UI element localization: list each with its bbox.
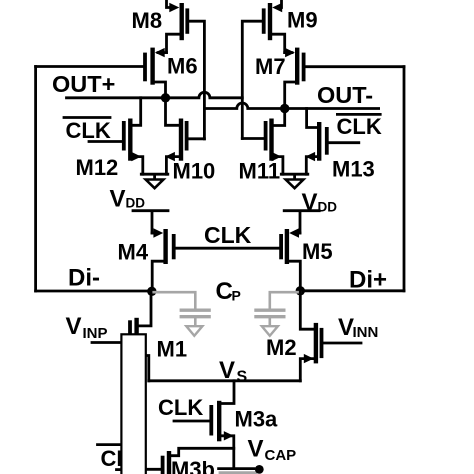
wire left rail (M6 gate to Di-) xyxy=(34,67,37,292)
wire VS xyxy=(149,379,300,382)
label CLKbar bottom (clipped by overlay) xyxy=(98,445,146,471)
svg-text:P: P xyxy=(232,288,241,304)
transistor M10 xyxy=(165,98,215,184)
transistor M3b xyxy=(146,448,234,474)
svg-text:V: V xyxy=(66,313,82,340)
svg-text:M9: M9 xyxy=(287,8,318,33)
node VCAP xyxy=(248,436,297,465)
svg-text:OUT+: OUT+ xyxy=(52,71,115,97)
power VDD left xyxy=(110,186,169,234)
wire OUT+ with hop over V1 xyxy=(67,92,243,98)
wire M7 gate to right rail xyxy=(304,65,404,68)
transistor M8 xyxy=(132,0,188,53)
svg-text:M3b: M3b xyxy=(171,457,215,474)
junction OUT+ / M6 drain xyxy=(161,93,170,102)
ground right xyxy=(281,174,308,188)
svg-text:M8: M8 xyxy=(132,8,163,33)
svg-text:CLK: CLK xyxy=(66,118,111,143)
wire OUT- with hop over V2 xyxy=(204,103,378,108)
junction Di+ xyxy=(296,286,305,295)
svg-text:M4: M4 xyxy=(118,240,149,265)
capacitor CP right (parasitic, gray) xyxy=(254,292,300,336)
node OUT- xyxy=(317,82,373,108)
label CLKbar right xyxy=(337,114,382,139)
node VINP xyxy=(66,313,130,343)
label CLK M3a xyxy=(158,395,203,420)
svg-text:CLK: CLK xyxy=(158,395,203,420)
svg-text:C: C xyxy=(216,278,233,305)
wire M6 gate to left rail xyxy=(36,65,145,68)
svg-text:M10: M10 xyxy=(173,159,216,184)
svg-text:Di-: Di- xyxy=(68,265,100,292)
overlay white box (figure crop patch) xyxy=(121,334,145,474)
wire right rail (M7 gate to Di+) xyxy=(403,67,406,291)
svg-text:S: S xyxy=(237,369,248,386)
svg-text:M7: M7 xyxy=(255,54,286,79)
wire CLK to M3a gate xyxy=(174,420,211,423)
svg-text:M3a: M3a xyxy=(235,407,279,432)
node OUT+ xyxy=(52,71,115,97)
wire CLK M4-M5 gates xyxy=(174,247,281,250)
svg-text:M1: M1 xyxy=(157,337,188,362)
svg-text:M11: M11 xyxy=(239,159,281,184)
capacitor CP left (parasitic, gray) xyxy=(152,292,211,336)
wire M8 gate to OUT- (V1) xyxy=(187,21,204,139)
wire M9 gate to OUT+ (V2) xyxy=(242,21,263,138)
svg-text:DD: DD xyxy=(126,196,146,211)
wire VS to M3a drain xyxy=(219,381,234,404)
label CLK latch xyxy=(204,222,252,248)
junction VCAP xyxy=(255,465,264,474)
svg-text:M12: M12 xyxy=(76,155,119,180)
node Di+ xyxy=(300,267,404,294)
node VINN xyxy=(338,314,378,341)
svg-text:M13: M13 xyxy=(332,157,375,182)
ground left xyxy=(141,174,168,188)
transistor M7 xyxy=(255,48,304,109)
power VDD right xyxy=(284,189,337,233)
svg-text:OUT-: OUT- xyxy=(317,82,373,108)
svg-text:M2: M2 xyxy=(266,335,297,360)
label CLKbar left xyxy=(64,118,111,143)
svg-text:INP: INP xyxy=(83,325,108,342)
transistor M11 xyxy=(239,109,285,184)
node VS xyxy=(219,357,248,386)
capacitor CCAP bottom plate xyxy=(219,469,257,473)
wire CLKbar to M12 gate xyxy=(89,140,124,143)
transistor M9 xyxy=(264,0,318,53)
label CP xyxy=(216,278,241,305)
svg-text:CLK: CLK xyxy=(204,222,252,248)
svg-text:M6: M6 xyxy=(167,54,198,79)
svg-text:INN: INN xyxy=(353,324,379,341)
svg-text:V: V xyxy=(248,436,264,463)
node Di- xyxy=(36,265,152,292)
transistor M1 xyxy=(130,292,187,381)
transistor M2 xyxy=(266,291,361,381)
svg-text:CLK: CLK xyxy=(337,114,382,139)
svg-text:CAP: CAP xyxy=(265,447,297,464)
transistor M3a xyxy=(211,401,278,467)
transistor M6 xyxy=(145,48,198,98)
svg-text:V: V xyxy=(110,186,126,213)
transistor M4 xyxy=(118,228,174,291)
junction Di- xyxy=(147,287,156,296)
transistor M5 xyxy=(281,228,332,290)
wire M13 gate xyxy=(327,141,359,144)
svg-text:M5: M5 xyxy=(302,239,333,264)
transistor M12 xyxy=(76,98,143,180)
junction OUT- / M7 drain xyxy=(280,104,289,113)
svg-text:DD: DD xyxy=(318,200,338,215)
transistor M13 xyxy=(305,109,374,182)
